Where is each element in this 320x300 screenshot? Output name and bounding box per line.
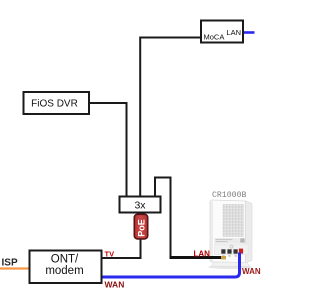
svg-text:modem: modem: [45, 265, 83, 277]
svg-text:CR1000B: CR1000B: [212, 191, 246, 200]
svg-text:3x: 3x: [134, 200, 146, 212]
svg-text:LAN: LAN: [226, 28, 241, 37]
svg-text:LAN: LAN: [194, 249, 211, 258]
svg-text:MoCA: MoCA: [204, 33, 225, 42]
svg-text:TV: TV: [105, 250, 115, 259]
svg-text:ISP: ISP: [2, 258, 18, 269]
svg-text:ONT/: ONT/: [51, 254, 79, 266]
svg-text:PoE: PoE: [137, 219, 147, 237]
svg-text:WAN: WAN: [242, 267, 261, 276]
svg-text:WAN: WAN: [105, 280, 125, 290]
svg-text:FiOS DVR: FiOS DVR: [31, 99, 78, 110]
